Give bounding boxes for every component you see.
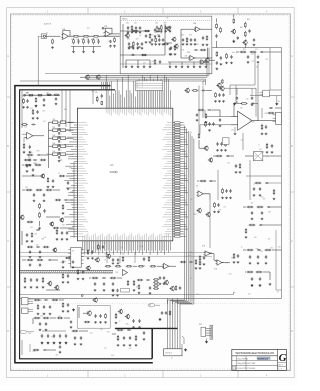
wire (235, 102, 238, 104)
ground (37, 313, 40, 315)
resistor R18 (206, 35, 208, 40)
capacitor C138 (39, 322, 41, 326)
svg-text:D: D (7, 330, 9, 333)
wire (20, 80, 86, 82)
resistor R66 (205, 121, 207, 127)
ground (170, 53, 173, 55)
ground (257, 262, 260, 264)
resistor R119 (138, 284, 140, 289)
capacitor C95 (218, 93, 220, 97)
capacitor C97 (236, 97, 238, 100)
wire (260, 91, 263, 93)
ground (164, 30, 167, 32)
resistor R109 (62, 273, 64, 279)
resistor R28 (54, 94, 59, 95)
svg-text:100n: 100n (104, 272, 107, 274)
wire (263, 155, 282, 157)
svg-text:C: C (291, 240, 293, 243)
ground (67, 310, 70, 312)
capacitor C44 (58, 156, 60, 159)
transistor Q19 (216, 83, 221, 88)
capacitor C148 (59, 345, 61, 348)
wire (214, 259, 217, 262)
capacitor C134 (116, 289, 118, 292)
wire (63, 31, 70, 37)
capacitor C89 (249, 255, 251, 259)
wire (236, 51, 239, 53)
ground (233, 261, 236, 263)
wire (73, 46, 75, 50)
svg-text:47K: 47K (136, 286, 139, 288)
wire (45, 35, 60, 37)
svg-text:Q28: Q28 (131, 54, 134, 56)
resistor R116 (65, 257, 70, 258)
ground (33, 200, 36, 202)
ground (217, 211, 220, 213)
resistor R2 (73, 38, 75, 44)
wire (243, 249, 246, 251)
svg-text:C87: C87 (136, 38, 139, 40)
svg-text:D28: D28 (40, 315, 43, 317)
wire (86, 78, 206, 80)
resistor R115 (42, 277, 44, 283)
inductor L4 (49, 145, 74, 148)
wire (261, 108, 263, 118)
wire (80, 76, 85, 78)
zone divider right (290, 286, 294, 288)
ground (131, 31, 134, 33)
svg-text:100n: 100n (111, 355, 114, 357)
svg-text:Q66: Q66 (126, 324, 129, 326)
capacitor C132 (179, 286, 181, 290)
ground (52, 186, 55, 188)
wire (33, 135, 44, 137)
ground (225, 197, 228, 199)
wire (117, 277, 122, 279)
ruler tick fringe bottom (11, 368, 290, 370)
resistor R30 (220, 27, 222, 33)
ground (132, 326, 135, 328)
ground (160, 30, 163, 32)
ground (261, 218, 264, 220)
resistor R76 (257, 206, 264, 208)
svg-text:1 / 1: 1 / 1 (278, 368, 281, 370)
wire (206, 89, 212, 91)
svg-text:X2: X2 (72, 251, 74, 253)
wire (20, 255, 212, 257)
svg-text:R62: R62 (240, 27, 243, 29)
ground (94, 321, 97, 323)
ground (58, 128, 61, 130)
wire (79, 330, 88, 332)
module box M1 (71, 247, 81, 267)
capacitor C12 (131, 54, 135, 56)
transistor Q8 (242, 40, 247, 45)
IC U1 top internal labels (106, 109, 170, 116)
wire (39, 221, 41, 226)
capacitor C144 (65, 334, 67, 338)
capacitor C30 (101, 94, 103, 98)
wire (255, 103, 258, 120)
svg-text:10K: 10K (254, 237, 257, 239)
resistor R42 (36, 189, 43, 191)
resistor R131 (84, 321, 90, 323)
wire (195, 57, 212, 59)
wire (20, 272, 113, 274)
ground (29, 257, 32, 258)
shield box dashed inner (121, 20, 211, 22)
resistor R3 (83, 38, 85, 44)
ground (72, 266, 75, 268)
capacitor C16 (159, 60, 161, 64)
resistor R15 (154, 59, 156, 65)
capacitor C135 (44, 299, 48, 301)
ground (80, 343, 83, 345)
resistor R55 (59, 175, 65, 177)
resistor R68 (225, 141, 227, 146)
wire (50, 317, 56, 319)
capacitor C142 (53, 334, 55, 338)
svg-text:D96: D96 (265, 113, 268, 115)
svg-text:P1 ........ 3: P1 ........ 3 (136, 82, 143, 84)
wire (32, 318, 34, 324)
ground (135, 31, 138, 33)
resistor R106 (110, 277, 117, 279)
ground (127, 289, 130, 291)
capacitor C116 (36, 246, 40, 248)
svg-text:330: 330 (260, 251, 263, 253)
ground (72, 308, 74, 311)
capacitor C36 (55, 97, 57, 100)
ground (138, 292, 141, 294)
wire (257, 64, 259, 103)
capacitor C119 (48, 259, 52, 261)
ground (154, 35, 157, 37)
resistor R60 (226, 53, 228, 59)
connector J1 shell (41, 34, 46, 39)
ground (31, 240, 34, 242)
wire (262, 120, 276, 122)
ground (206, 44, 209, 46)
op-amp U2 (104, 31, 112, 37)
svg-text:J1: J1 (46, 33, 48, 35)
svg-text:R90: R90 (22, 96, 25, 98)
svg-text:D38: D38 (185, 55, 188, 57)
wire (68, 256, 71, 258)
capacitor C38 (31, 124, 35, 126)
wire (168, 61, 208, 63)
transistor Q28 (86, 265, 91, 270)
capacitor C96 (222, 93, 224, 97)
wire (83, 312, 87, 314)
svg-text:U6: U6 (196, 186, 198, 188)
wire (20, 294, 234, 296)
svg-text:C17: C17 (251, 54, 254, 56)
IC U1 left pin bank (64, 123, 88, 237)
wire (89, 277, 91, 279)
note table row (135, 85, 163, 87)
wire (83, 46, 85, 50)
svg-text:R71: R71 (243, 49, 246, 51)
svg-text:C18: C18 (104, 254, 107, 256)
ground (224, 149, 227, 151)
ground (218, 100, 221, 102)
wire (272, 249, 281, 251)
capacitor C69 (265, 125, 267, 129)
wire (37, 36, 39, 85)
op-amp U5 (25, 132, 34, 139)
ground (158, 35, 161, 37)
capacitor C108 (91, 250, 93, 254)
wire (244, 45, 246, 48)
svg-text:1u: 1u (259, 144, 261, 146)
capacitor C5 (109, 40, 111, 43)
svg-text:D93: D93 (69, 167, 72, 169)
svg-text:47K: 47K (143, 266, 146, 268)
resistor R73 (200, 180, 207, 182)
resistor R87 (222, 79, 224, 84)
ground (259, 284, 261, 287)
dotted net line (20, 303, 281, 305)
ground (62, 266, 65, 268)
logo cell rows (278, 362, 287, 364)
svg-text:R73: R73 (219, 210, 222, 212)
capacitor C40 (58, 124, 60, 127)
ground (151, 43, 154, 45)
ground (91, 257, 94, 259)
wire (24, 94, 60, 96)
svg-text:22p: 22p (190, 132, 193, 134)
ground (220, 149, 223, 151)
inductor L5 (49, 153, 74, 156)
resistor R82 (265, 249, 272, 251)
ground (116, 295, 119, 296)
ground (222, 100, 225, 102)
wire (276, 96, 278, 102)
capacitor C42 (58, 140, 60, 143)
wire (236, 88, 238, 95)
wire (86, 76, 206, 78)
wire (42, 330, 66, 332)
svg-text:R60: R60 (181, 34, 184, 36)
capacitor C111 (102, 277, 106, 279)
node (81, 295, 83, 297)
ground (43, 313, 46, 315)
svg-text:Q78: Q78 (103, 32, 106, 34)
transistor Q11 (59, 217, 64, 222)
connector J3 (22, 308, 28, 313)
capacitor C55 (33, 159, 37, 161)
svg-text:TP91: TP91 (67, 270, 71, 272)
capacitor C7 (135, 26, 137, 30)
ground (253, 194, 256, 196)
svg-text:D96: D96 (33, 351, 36, 353)
transistor Q14 (203, 146, 208, 151)
wire (28, 309, 33, 311)
svg-text:C57: C57 (134, 22, 137, 24)
wire (61, 90, 63, 122)
capacitor C121 (39, 263, 41, 266)
ground (35, 105, 37, 108)
title block logo cell (277, 349, 279, 370)
wire (120, 54, 165, 56)
capacitor C26 (154, 28, 156, 32)
bus hatching (21, 270, 113, 273)
ground (220, 63, 223, 65)
svg-text:4K7: 4K7 (56, 354, 59, 356)
op-amp U12 (162, 263, 170, 269)
capacitor C85 (259, 224, 263, 226)
resistor R108 (133, 280, 135, 286)
capacitor C80 (225, 189, 227, 193)
resistor R85 (192, 90, 199, 92)
svg-text:U3B: U3B (187, 52, 190, 54)
resistor R123 (34, 299, 41, 301)
svg-text:22p: 22p (100, 329, 103, 331)
capacitor C146 (80, 336, 82, 340)
capacitor C114 (112, 282, 114, 286)
wire (27, 331, 34, 333)
resistor R13 (141, 54, 147, 56)
ground (32, 117, 35, 119)
capacitor C27 (169, 47, 171, 50)
capacitor C147 (43, 349, 47, 351)
resistor R27 (46, 94, 51, 95)
ground (251, 218, 254, 220)
svg-text:C96: C96 (25, 187, 28, 189)
svg-text:2K2: 2K2 (248, 293, 251, 295)
capacitor C6 (127, 26, 129, 30)
capacitor C62 (216, 61, 218, 65)
resistor R40 (35, 164, 42, 166)
wire (246, 175, 281, 177)
ground (259, 194, 262, 196)
wire (169, 62, 171, 65)
svg-text:L87: L87 (190, 199, 193, 201)
svg-text:330: 330 (270, 247, 273, 249)
op-amp U9 (216, 260, 224, 265)
wire (106, 252, 108, 263)
connector J5 resistor bank (201, 325, 213, 339)
ground (28, 151, 31, 153)
resistor R46 (27, 221, 34, 223)
title row 3 mark (232, 366, 235, 369)
capacitor C143 (59, 334, 61, 338)
svg-text:R56: R56 (186, 39, 189, 41)
ruler tick fringe right (288, 14, 290, 371)
svg-text:Q42: Q42 (36, 245, 39, 247)
wire (45, 73, 212, 75)
ground (62, 281, 65, 283)
resistor R43 (46, 189, 53, 191)
ground (41, 342, 43, 345)
resistor R89 (205, 113, 207, 118)
svg-text:R79: R79 (164, 22, 167, 24)
ground (141, 47, 144, 49)
capacitor C110 (149, 286, 151, 290)
IC U1 bottom internal labels (82, 233, 170, 240)
capacitor C56 (26, 164, 28, 167)
wire (273, 117, 276, 119)
wire (206, 48, 210, 76)
capacitor C107 (143, 257, 145, 261)
capacitor C75 (226, 155, 230, 157)
ground (174, 53, 177, 55)
ground (195, 267, 198, 269)
capacitor C139 (45, 322, 47, 326)
resistor R75 (247, 206, 254, 208)
crystal X2 marks (253, 152, 262, 161)
svg-text:330: 330 (61, 39, 64, 41)
wire (200, 124, 231, 126)
resistor R81 (247, 249, 254, 251)
svg-text:L40: L40 (246, 99, 249, 101)
note table (135, 81, 163, 91)
capacitor C149 (94, 314, 96, 318)
ground (216, 67, 219, 70)
svg-text:SHIELD: SHIELD (122, 19, 128, 21)
wire (217, 170, 219, 200)
svg-text:TP30: TP30 (225, 262, 229, 264)
wire (125, 60, 127, 65)
transistor Q1 (125, 33, 130, 38)
wire (255, 88, 257, 116)
ground (233, 102, 235, 105)
capacitor C61 (64, 199, 68, 201)
svg-text:1u: 1u (60, 262, 62, 264)
capacitor C145 (74, 336, 76, 340)
op-amp U1 (61, 33, 70, 39)
svg-text:1u: 1u (206, 65, 208, 67)
transistor Q3 (173, 44, 178, 49)
wire (41, 154, 49, 156)
wire (219, 110, 221, 117)
capacitor C4 (102, 27, 105, 29)
capacitor C48 (43, 209, 45, 213)
resistor R19 (200, 49, 207, 51)
svg-text:TP5: TP5 (103, 243, 106, 245)
ground (159, 318, 161, 321)
resistor R41 (26, 189, 33, 191)
svg-text:P3 ........ 7: P3 ........ 7 (136, 86, 143, 88)
resistor R22 (163, 43, 169, 45)
wire (28, 311, 33, 313)
wire (48, 122, 50, 154)
ground (221, 197, 224, 199)
wire (46, 216, 60, 218)
resistor R136 (169, 310, 171, 315)
capacitor C158 (165, 311, 167, 315)
op-amp U10 (199, 60, 206, 65)
ground (99, 321, 102, 323)
svg-text:Q23: Q23 (266, 156, 269, 158)
wire (53, 189, 60, 191)
ground (214, 100, 217, 102)
resistor R133 (117, 329, 124, 331)
svg-text:L81: L81 (241, 140, 244, 142)
capacitor C28 (137, 46, 141, 48)
svg-text:4K7: 4K7 (92, 91, 95, 93)
wire (165, 42, 172, 44)
ground (139, 31, 142, 33)
svg-text:FB3: FB3 (53, 135, 56, 137)
ground (269, 283, 272, 286)
capacitor C45 (32, 168, 34, 172)
svg-text:R58: R58 (196, 44, 199, 46)
capacitor C79 (209, 180, 213, 182)
ground (181, 65, 184, 68)
wire (269, 272, 271, 280)
